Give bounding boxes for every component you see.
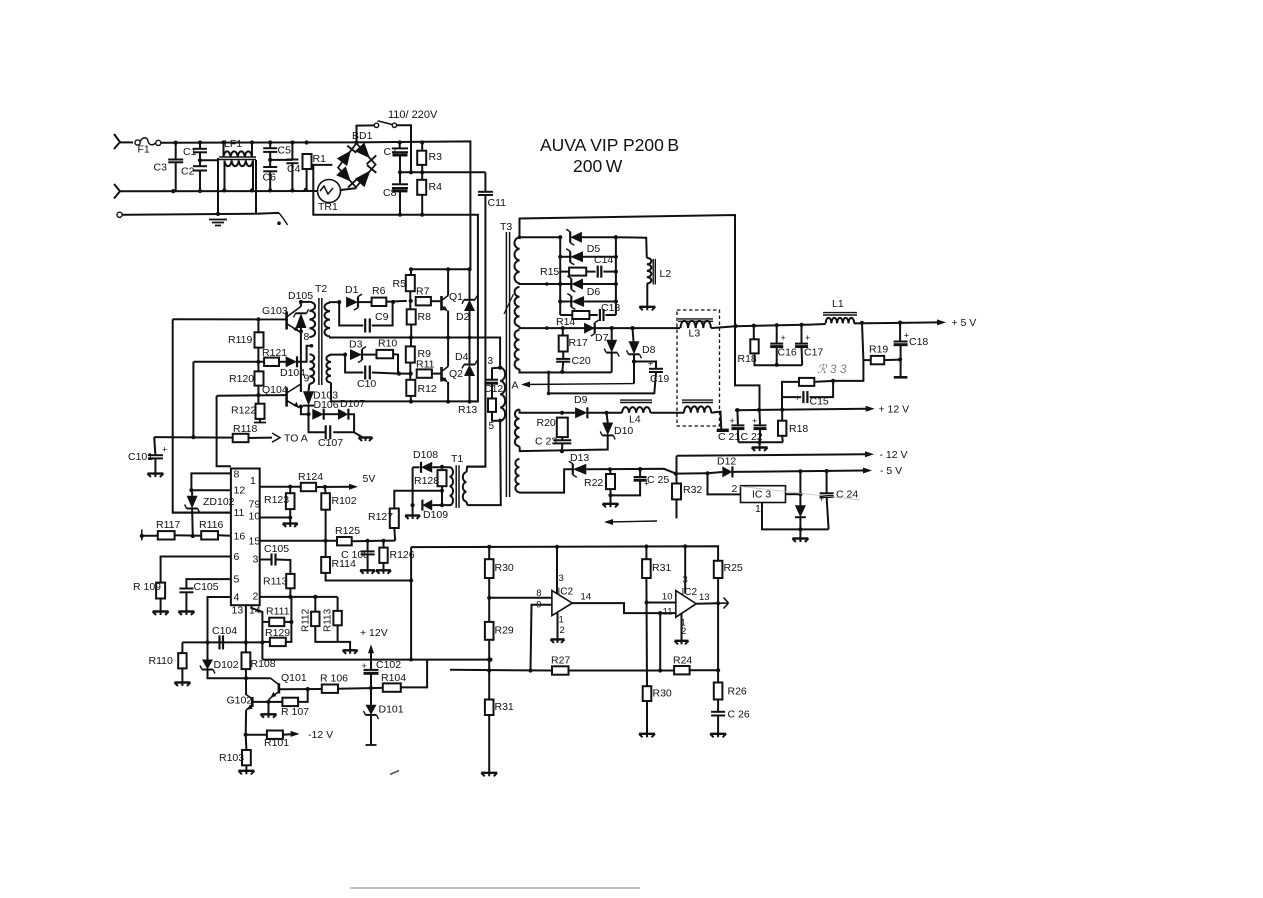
wire — [814, 381, 833, 382]
resistor R101 — [264, 731, 289, 750]
capacitor C13 — [600, 302, 621, 321]
IC2a in- wire — [531, 605, 552, 671]
svg-text:R114: R114 — [332, 558, 356, 570]
wire — [781, 436, 784, 442]
wire — [367, 555, 369, 570]
inductor L2 — [647, 258, 672, 285]
svg-text:R30: R30 — [495, 562, 514, 574]
svg-text:C1: C1 — [183, 146, 197, 158]
node — [171, 189, 175, 193]
R32 column — [676, 456, 678, 484]
svg-text:L2: L2 — [660, 268, 672, 280]
arrow left — [604, 519, 657, 525]
node — [683, 544, 687, 548]
resistor R120 — [229, 371, 264, 385]
wire C1 column — [199, 143, 201, 149]
resistor R112 — [311, 612, 319, 626]
wire — [330, 301, 339, 304]
wire — [736, 410, 739, 425]
node — [256, 360, 260, 364]
node — [191, 435, 195, 439]
row2 — [560, 256, 570, 258]
wire — [279, 361, 286, 363]
wire — [759, 429, 761, 442]
left col — [412, 467, 414, 505]
pin 5 — [488, 421, 494, 432]
svg-text:R31: R31 — [652, 562, 671, 574]
svg-text:D10: D10 — [614, 425, 633, 437]
input terminal L — [114, 134, 120, 149]
node — [555, 545, 559, 549]
wire — [633, 354, 635, 383]
node — [256, 317, 260, 321]
node — [831, 379, 835, 383]
svg-text:8: 8 — [304, 331, 310, 343]
Q102 base wire — [252, 701, 268, 703]
svg-text:8: 8 — [234, 469, 240, 481]
svg-text:IC2: IC2 — [682, 587, 698, 598]
node — [222, 188, 226, 192]
svg-text:R127: R127 — [368, 511, 393, 523]
wire — [224, 161, 226, 191]
svg-text:R7: R7 — [416, 286, 430, 298]
svg-text:6: 6 — [234, 551, 240, 563]
capacitor C7 lower plate — [393, 153, 408, 156]
wire — [370, 650, 372, 670]
T3 secondary winding 3 — [515, 330, 520, 369]
svg-text:D3: D3 — [349, 339, 363, 351]
pin 16 — [234, 531, 246, 543]
wire — [289, 509, 291, 517]
svg-text:LF1: LF1 — [224, 138, 242, 150]
svg-text:110/ 220V: 110/ 220V — [388, 109, 438, 121]
svg-text:R102: R102 — [332, 495, 357, 507]
svg-text:D107: D107 — [340, 398, 365, 410]
wire — [338, 687, 383, 690]
node — [775, 323, 779, 327]
node — [561, 326, 565, 330]
resistor R124 — [298, 471, 323, 491]
node — [244, 676, 248, 680]
C9 loop — [339, 302, 363, 325]
resistor R117 — [156, 519, 180, 540]
node — [288, 485, 292, 489]
resistor R1 — [303, 153, 327, 169]
node — [290, 140, 294, 144]
diode D7 — [584, 320, 608, 344]
resistor R29 — [485, 622, 514, 640]
pin10 wire — [260, 517, 291, 519]
inductor L1 — [823, 298, 857, 323]
svg-text:G102: G102 — [227, 695, 253, 707]
node — [409, 299, 413, 303]
svg-text:C105: C105 — [194, 581, 219, 593]
wire — [283, 733, 291, 736]
wire — [301, 301, 310, 303]
node — [545, 282, 549, 286]
T3 core tap mark — [504, 294, 514, 314]
T2 winding upper right — [325, 303, 331, 337]
resistor R6 — [372, 285, 387, 306]
node — [658, 668, 662, 672]
inductor L3 box — [677, 310, 720, 426]
resistor R22 — [584, 474, 615, 489]
pin6 wire — [161, 557, 231, 583]
node — [614, 282, 618, 286]
resistor R19 — [869, 344, 888, 365]
resistor R119 — [228, 332, 264, 347]
wire — [333, 414, 354, 432]
svg-text:R1: R1 — [313, 153, 327, 165]
wire — [245, 669, 247, 695]
wire — [586, 271, 595, 273]
label D6 — [587, 286, 601, 298]
node — [260, 640, 264, 644]
wire — [306, 169, 308, 190]
resistor R103 — [219, 750, 251, 765]
node — [757, 408, 761, 412]
wire — [218, 534, 231, 537]
transistor Q101 — [270, 672, 307, 699]
wire — [175, 534, 202, 537]
svg-text:R10: R10 — [378, 338, 397, 350]
Q1 top rail — [411, 268, 470, 270]
wire — [432, 373, 442, 375]
wire — [315, 626, 350, 650]
ground — [639, 734, 655, 738]
T1 right winding — [463, 472, 467, 501]
svg-text:R15: R15 — [540, 266, 559, 278]
wire — [708, 473, 741, 494]
capacitor C5 — [263, 145, 291, 157]
transistor Q102 — [227, 695, 253, 711]
wire — [561, 444, 563, 452]
capacitor C102 — [362, 659, 402, 673]
svg-text:Q2: Q2 — [449, 368, 463, 380]
capacitor C18 — [894, 331, 929, 349]
svg-text:11: 11 — [663, 607, 673, 618]
capacitor C25 — [634, 474, 670, 489]
resistor R5 — [393, 275, 415, 291]
earth wire — [122, 213, 279, 215]
node — [288, 595, 292, 599]
node — [705, 471, 709, 475]
node — [306, 687, 310, 691]
node — [488, 658, 492, 662]
node — [645, 600, 649, 604]
diode D109 — [422, 500, 448, 521]
R104 link — [401, 660, 427, 688]
node — [440, 489, 444, 493]
svg-text:R17: R17 — [569, 337, 588, 349]
diode D3 — [349, 339, 366, 363]
wire — [301, 407, 309, 415]
+12V rail — [735, 409, 866, 410]
wire — [269, 171, 271, 190]
arrow -12V — [865, 449, 908, 461]
R127 to T1 wire — [394, 491, 442, 509]
node tap 3 — [498, 366, 502, 370]
wire — [492, 412, 500, 421]
capacitor C6 — [263, 167, 278, 184]
resistor R113b — [333, 611, 341, 625]
left terminal — [141, 530, 143, 541]
wire — [826, 471, 828, 493]
pin4 wire — [208, 597, 231, 642]
wire — [325, 541, 327, 557]
resistor R30b — [643, 686, 672, 701]
wire — [409, 363, 411, 380]
svg-text:R103: R103 — [219, 752, 244, 764]
node — [189, 488, 193, 492]
wire — [357, 141, 471, 269]
wire — [759, 410, 762, 425]
node — [216, 212, 220, 216]
T1 left winding — [450, 467, 454, 505]
node — [290, 188, 294, 192]
node — [381, 539, 385, 543]
ground — [481, 773, 497, 777]
svg-text:R26: R26 — [728, 686, 747, 698]
svg-text:-12 V: -12 V — [308, 729, 333, 741]
resistor R126 — [379, 548, 414, 563]
svg-text:15: 15 — [249, 536, 261, 548]
svg-text:L4: L4 — [629, 414, 641, 426]
bridge rectifier BD1 — [338, 130, 376, 187]
svg-text:5V: 5V — [363, 473, 376, 485]
diode D103 — [303, 390, 338, 406]
capacitor C2 — [181, 166, 207, 178]
svg-text:D102: D102 — [214, 659, 239, 671]
pin 1 — [250, 475, 256, 487]
svg-text:C19: C19 — [650, 373, 669, 385]
wire — [562, 352, 564, 359]
pin 14 — [249, 605, 261, 617]
node — [487, 658, 491, 662]
wire — [383, 541, 385, 548]
wire — [246, 641, 263, 643]
resistor R31b — [485, 700, 514, 716]
svg-text:R121: R121 — [262, 347, 287, 359]
wire — [199, 171, 201, 191]
svg-text:C4: C4 — [287, 163, 301, 175]
node — [268, 188, 272, 192]
arrow A — [521, 382, 634, 388]
wire — [316, 486, 352, 488]
svg-text:D7: D7 — [595, 332, 609, 344]
svg-text:+: + — [781, 333, 786, 343]
node — [398, 213, 402, 217]
resistor R129 — [265, 627, 290, 646]
svg-text:R104: R104 — [381, 672, 406, 684]
node — [305, 140, 309, 144]
capacitor C14 — [594, 254, 613, 278]
wire — [616, 237, 647, 258]
svg-text:D2: D2 — [456, 311, 470, 323]
wire — [610, 489, 612, 495]
svg-text:14: 14 — [581, 592, 592, 603]
capacitor C26 — [711, 709, 750, 721]
pin 13 — [232, 605, 244, 617]
wire — [270, 159, 292, 161]
IC2a out wire — [572, 603, 676, 613]
transistor Q2 — [442, 367, 464, 383]
node — [409, 578, 413, 582]
svg-text:R13: R13 — [458, 404, 477, 416]
node — [558, 255, 562, 259]
svg-text:R6: R6 — [372, 285, 386, 297]
transformer T1 core — [451, 453, 463, 508]
node — [547, 371, 551, 375]
svg-text:D4: D4 — [455, 351, 469, 363]
ground — [551, 639, 565, 643]
resistor R8 — [407, 309, 431, 324]
output arrow — [718, 598, 728, 609]
node T2 top — [299, 300, 303, 304]
svg-text:AUVA VIP P200 B: AUVA VIP P200 B — [540, 135, 679, 155]
inductor L3 lower — [682, 400, 713, 413]
svg-text:R118: R118 — [233, 423, 257, 435]
C104 row — [182, 641, 246, 643]
resistor R127 — [368, 509, 399, 529]
node — [299, 405, 303, 409]
node — [324, 539, 328, 543]
svg-text:R25: R25 — [724, 562, 743, 574]
node — [277, 221, 281, 225]
svg-text:+ 12V: + 12V — [360, 627, 388, 639]
wire — [583, 283, 616, 285]
row5 — [560, 301, 571, 303]
node — [560, 411, 564, 415]
bias rail — [257, 319, 259, 403]
node — [798, 469, 802, 473]
svg-text:R32: R32 — [683, 484, 702, 496]
svg-text:R22: R22 — [584, 477, 603, 489]
wire — [191, 509, 194, 537]
resistor R121 — [262, 347, 287, 366]
svg-text:BD1: BD1 — [352, 130, 373, 142]
node — [716, 668, 720, 672]
T3 secondary winding 2 — [515, 287, 520, 326]
capacitor C23 — [535, 436, 571, 448]
svg-text:Q101: Q101 — [281, 672, 307, 684]
vert q104 base — [217, 396, 231, 467]
capacitor C10 — [357, 366, 376, 391]
pin15 wire — [260, 540, 337, 542]
node — [420, 140, 424, 144]
node — [198, 189, 202, 193]
wire — [467, 421, 501, 505]
node — [409, 267, 413, 271]
node — [518, 236, 522, 240]
wire — [154, 437, 155, 455]
svg-text:C9: C9 — [375, 311, 389, 323]
wire — [393, 528, 396, 541]
node A label — [512, 380, 519, 392]
ground — [675, 641, 689, 645]
wire — [586, 469, 676, 474]
wire — [297, 346, 312, 362]
node — [487, 596, 491, 600]
T3 secondary winding 1 — [514, 237, 519, 283]
transistor Q1 — [442, 291, 464, 311]
node — [446, 335, 450, 339]
pin5 wire — [186, 579, 231, 588]
resistor R123 — [264, 493, 295, 509]
resistor R25 — [714, 561, 743, 578]
label D106 — [314, 399, 339, 411]
node — [604, 411, 608, 415]
row4 — [520, 283, 572, 286]
resistor R20 — [537, 417, 568, 437]
svg-text:R4: R4 — [429, 181, 443, 193]
capacitor C20 — [556, 355, 591, 367]
arrow +5V — [937, 317, 976, 329]
wire — [370, 688, 372, 705]
capacitor C8 — [383, 184, 408, 199]
resistor R18a — [738, 339, 759, 365]
capacitor C4 — [286, 160, 300, 176]
svg-text:11: 11 — [234, 507, 245, 519]
wire — [606, 314, 616, 316]
node — [440, 503, 444, 507]
wire — [262, 621, 269, 623]
wire — [646, 701, 648, 734]
wire — [899, 323, 901, 342]
svg-text:10: 10 — [662, 592, 673, 603]
zener D10 — [600, 423, 633, 440]
node — [191, 534, 195, 538]
IC2b in+ wire — [647, 602, 676, 604]
opamp top rail h — [411, 546, 718, 561]
IC2a V- line — [557, 613, 559, 640]
wire — [781, 410, 783, 421]
resistor R106 — [320, 673, 348, 693]
resistor R30a — [485, 559, 514, 578]
node — [558, 299, 562, 303]
node — [409, 658, 413, 662]
node — [638, 467, 642, 471]
-5V rail — [676, 472, 708, 474]
svg-text:R 109: R 109 — [133, 581, 161, 593]
node — [630, 326, 634, 330]
ground — [376, 570, 391, 574]
IC2b out wire — [696, 602, 718, 604]
R121 row — [193, 361, 264, 363]
wire — [409, 291, 411, 309]
svg-text:C5: C5 — [278, 145, 292, 157]
wire — [324, 413, 338, 415]
wire — [255, 160, 257, 214]
IC2a V+ pin3 — [556, 547, 558, 594]
wire — [603, 271, 616, 273]
svg-text:4: 4 — [234, 592, 240, 604]
diode D13 — [569, 452, 590, 477]
node — [221, 140, 225, 144]
pin11 wire — [173, 512, 231, 514]
svg-text:R24: R24 — [673, 655, 692, 667]
node — [734, 324, 738, 328]
svg-text:C 23: C 23 — [535, 436, 557, 448]
wire — [466, 502, 469, 506]
wire — [175, 162, 177, 191]
node — [343, 353, 347, 357]
svg-text:C12: C12 — [484, 383, 503, 395]
op-amp IC2a — [536, 573, 591, 636]
node — [610, 326, 614, 330]
diode D108 — [413, 449, 438, 473]
wire — [488, 640, 490, 700]
